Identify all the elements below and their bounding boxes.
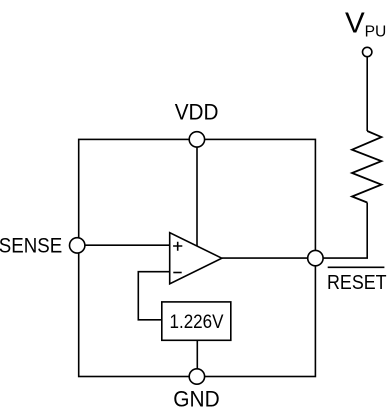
wire inverting input to reference: [138, 272, 169, 320]
wire SENSE to non-inverting input: [85, 244, 170, 246]
terminal RESET: [308, 250, 323, 265]
minus sign (inverting input): [173, 272, 181, 274]
terminal VDD: [189, 132, 204, 147]
svg-text:PU: PU: [365, 24, 387, 41]
resistor R1 pull-up: [352, 131, 382, 203]
svg-text:SENSE: SENSE: [0, 235, 62, 258]
wire reference to GND: [196, 340, 198, 369]
svg-text:GND: GND: [173, 387, 219, 412]
IC body box U1: [79, 139, 316, 376]
wire comparator output to RESET terminal: [222, 257, 308, 259]
svg-text:RESET: RESET: [327, 271, 387, 294]
terminal SENSE: [70, 238, 85, 253]
svg-text:VDD: VDD: [175, 100, 219, 125]
svg-text:V: V: [345, 6, 365, 38]
terminal GND: [189, 369, 204, 384]
terminal VPU: [363, 47, 372, 56]
svg-text:1.226V: 1.226V: [170, 311, 224, 333]
overline for RESET: [328, 266, 385, 268]
voltage reference box 1.226V: [162, 302, 231, 340]
plus sign (non-inverting input): [173, 242, 182, 251]
wire resistor to RESET node: [323, 203, 367, 259]
wire VDD to comparator: [196, 147, 198, 246]
wire VPU to resistor: [366, 57, 368, 131]
comparator U2: [170, 233, 222, 284]
